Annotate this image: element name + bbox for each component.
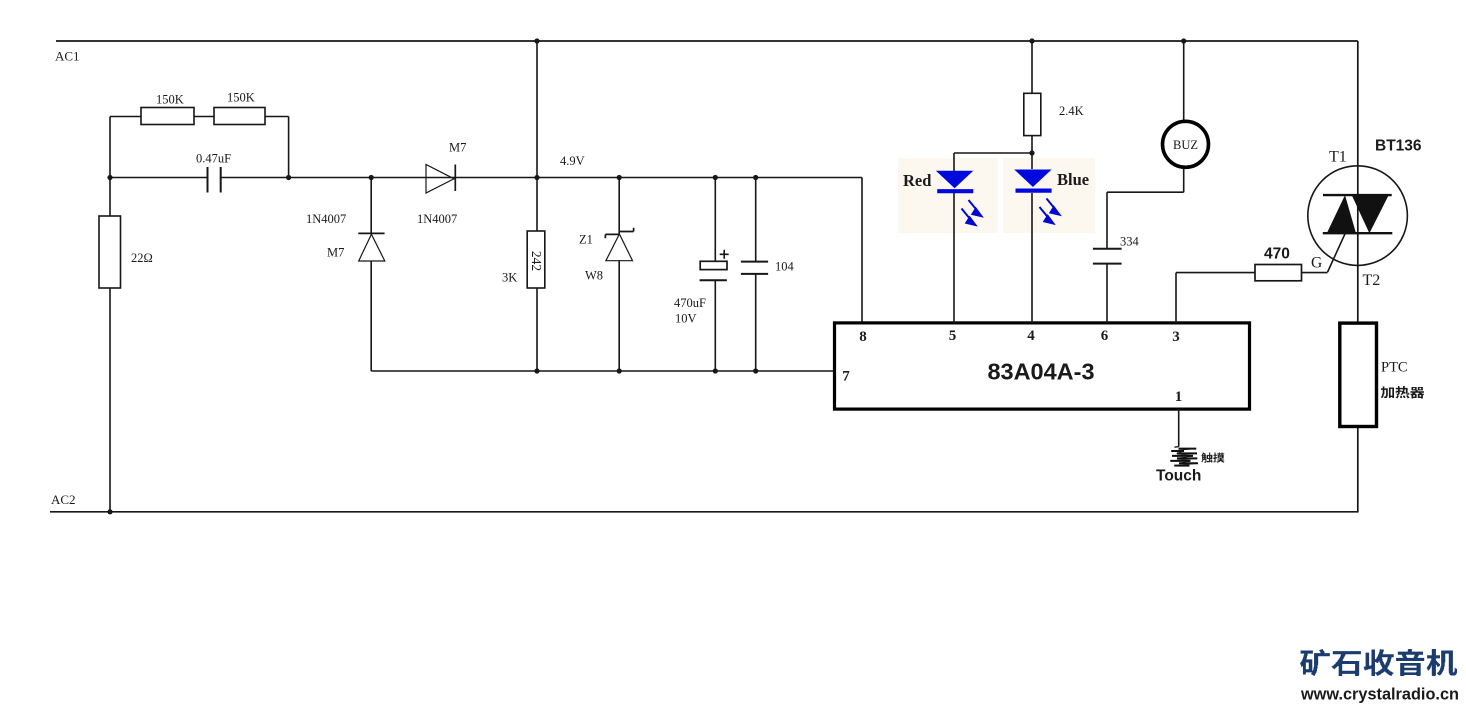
- pin 5 label: [949, 328, 957, 344]
- label 470: [1264, 246, 1290, 263]
- label 470uF: [674, 296, 706, 310]
- svg-text:104: 104: [775, 260, 795, 274]
- svg-text:1: 1: [1175, 389, 1183, 405]
- wire buzzer branch: [1107, 41, 1184, 323]
- svg-text:4: 4: [1027, 328, 1035, 344]
- PTC heater box: [1340, 323, 1377, 426]
- faint patch behind blue LED: [1003, 158, 1095, 233]
- wire AC2 bottom rail: [50, 511, 1359, 513]
- resistor R 150K first: [141, 108, 194, 125]
- wire PTC bottom to AC2: [1357, 427, 1359, 512]
- svg-text:6: 6: [1101, 328, 1109, 344]
- touch electrode squiggle: [1170, 447, 1198, 466]
- svg-text:470uF: 470uF: [674, 296, 706, 310]
- junction dot zener bottom: [617, 368, 622, 373]
- wire AC1 top rail: [56, 40, 1358, 42]
- svg-text:2.4K: 2.4K: [1059, 104, 1084, 118]
- svg-text:150K: 150K: [227, 91, 255, 105]
- svg-text:10V: 10V: [675, 312, 697, 326]
- label G: [1311, 255, 1322, 272]
- LED red arrows: [962, 200, 982, 225]
- svg-text:www.crystalradio.cn: www.crystalradio.cn: [1300, 685, 1459, 704]
- label T2: [1363, 272, 1381, 289]
- capacitor 104: [741, 178, 768, 372]
- label BT136: [1375, 138, 1422, 155]
- junction dot 104 top: [753, 175, 758, 180]
- label chumo (touch) hand-drawn: [1202, 453, 1225, 463]
- label 0.47uF: [196, 152, 231, 166]
- LED blue arrows: [1040, 199, 1060, 224]
- wire pin3 to gate resistor: [1176, 234, 1345, 323]
- diode M7 horizontal: [426, 165, 455, 194]
- wire 2.4K branch: [954, 41, 1032, 153]
- label 1N4007 left: [306, 212, 346, 226]
- faint patch behind red LED: [898, 158, 998, 233]
- svg-text:150K: 150K: [156, 93, 184, 107]
- svg-text:5: 5: [949, 328, 957, 344]
- svg-text:4.9V: 4.9V: [560, 154, 585, 168]
- svg-text:PTC: PTC: [1381, 360, 1408, 376]
- resistor 242 3K: [527, 231, 545, 288]
- svg-text:3: 3: [1172, 329, 1180, 345]
- junction dot AC2 left: [107, 509, 112, 514]
- wire resistor row: [110, 117, 289, 178]
- pin 4 label: [1027, 328, 1035, 344]
- junction dot 104 bottom: [753, 368, 758, 373]
- label 4.9V: [560, 154, 585, 168]
- label 10V: [675, 312, 697, 326]
- wire 537 vertical from AC1: [536, 41, 538, 371]
- svg-text:Z1: Z1: [579, 233, 593, 247]
- wire blue LED branch pin4: [1031, 153, 1033, 323]
- label 83A04A-3: [987, 359, 1094, 385]
- svg-text:83A04A-3: 83A04A-3: [987, 359, 1094, 385]
- label 242 rotated: [529, 251, 544, 271]
- svg-text:M7: M7: [449, 141, 466, 155]
- pin 7 label: [842, 369, 850, 385]
- label W8: [585, 269, 603, 283]
- junction dot left cap: [107, 175, 112, 180]
- junction dot 537 bottom: [534, 368, 539, 373]
- junction dot below 2.4K: [1029, 150, 1034, 155]
- label 22ohm: [131, 251, 153, 265]
- label Red: [903, 171, 931, 190]
- svg-text:T2: T2: [1363, 272, 1381, 289]
- svg-text:3K: 3K: [502, 271, 517, 285]
- wire left vertical upper: [109, 117, 111, 217]
- label AC1: [55, 49, 80, 64]
- junction dot buzzer top: [1181, 38, 1186, 43]
- LED blue: [1014, 170, 1051, 191]
- pin 6 label: [1101, 328, 1109, 344]
- label 150K second: [227, 91, 255, 105]
- wire pin1 touch: [1178, 409, 1180, 447]
- svg-text:7: 7: [842, 369, 850, 385]
- junction dot 470uF bottom: [713, 368, 718, 373]
- label 150K first: [156, 93, 184, 107]
- wire diode branch x371: [371, 178, 834, 372]
- svg-text:G: G: [1311, 255, 1322, 272]
- label Z1: [579, 233, 593, 247]
- label 2.4K: [1059, 104, 1084, 118]
- capacitor 470uF electrolytic: [700, 178, 729, 372]
- watermark url: [1300, 685, 1459, 704]
- label M7 top: [449, 141, 466, 155]
- label AC2: [51, 492, 76, 507]
- watermark kuangshi shouyinji hand-drawn: [1300, 649, 1457, 676]
- capacitor 334: [1093, 249, 1122, 264]
- junction dot 470uF top: [713, 175, 718, 180]
- svg-text:T1: T1: [1329, 149, 1347, 166]
- svg-text:AC2: AC2: [51, 492, 76, 507]
- junction dot zener top: [617, 175, 622, 180]
- resistor 2.4K: [1024, 93, 1041, 135]
- label 334: [1120, 235, 1140, 249]
- junction dot 2.4K top: [1029, 38, 1034, 43]
- svg-text:Blue: Blue: [1057, 170, 1089, 189]
- label Touch: [1156, 468, 1201, 485]
- svg-text:Touch: Touch: [1156, 468, 1201, 485]
- svg-text:22Ω: 22Ω: [131, 251, 153, 265]
- junction dot x371 main: [369, 175, 374, 180]
- buzzer BUZ: [1163, 121, 1209, 167]
- label Blue: [1057, 170, 1089, 189]
- svg-text:8: 8: [859, 329, 867, 345]
- label T1: [1329, 149, 1347, 166]
- svg-text:242: 242: [529, 251, 544, 271]
- svg-text:AC1: AC1: [55, 49, 80, 64]
- svg-text:1N4007: 1N4007: [306, 212, 346, 226]
- LED red: [936, 171, 973, 191]
- svg-text:BT136: BT136: [1375, 138, 1422, 155]
- resistor 470: [1255, 265, 1302, 281]
- wire left vertical lower: [109, 288, 111, 512]
- resistor 22ohm: [99, 216, 121, 288]
- junction dot 537 main: [534, 175, 539, 180]
- junction dot right cap: [286, 175, 291, 180]
- capacitor 0.47uF: [208, 167, 221, 193]
- label jiareqi (heater) hand-drawn: [1381, 386, 1424, 399]
- pin 1 label: [1175, 389, 1183, 405]
- label 104: [775, 260, 795, 274]
- svg-text:0.47uF: 0.47uF: [196, 152, 231, 166]
- IC 83A04A-3 box: [835, 323, 1250, 409]
- triac BT136: [1308, 166, 1408, 266]
- label M7 left: [327, 246, 344, 260]
- svg-text:1N4007: 1N4007: [417, 212, 457, 226]
- svg-text:BUZ: BUZ: [1173, 138, 1198, 152]
- pin 8 label: [859, 329, 867, 345]
- diode M7 vertical: [358, 233, 385, 261]
- label 3K: [502, 271, 517, 285]
- pin 3 label: [1172, 329, 1180, 345]
- wire right vertical T1 drop: [1357, 41, 1359, 323]
- zener Z1 W8: [605, 178, 633, 372]
- label 1N4007 mid: [417, 212, 457, 226]
- wire red LED branch pin5: [953, 153, 955, 323]
- svg-text:W8: W8: [585, 269, 603, 283]
- resistor R 150K second: [214, 108, 265, 125]
- svg-text:470: 470: [1264, 246, 1290, 263]
- svg-text:334: 334: [1120, 235, 1140, 249]
- svg-text:M7: M7: [327, 246, 344, 260]
- svg-text:Red: Red: [903, 171, 931, 190]
- label PTC: [1381, 360, 1408, 376]
- junction dot 537 AC1: [534, 38, 539, 43]
- wire main rail 4.9V: [110, 178, 862, 323]
